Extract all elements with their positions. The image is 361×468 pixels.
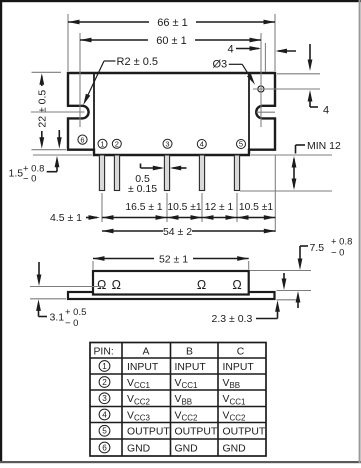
page border frame xyxy=(0,0,361,2)
svg-text:60 ± 1: 60 ± 1 xyxy=(156,35,187,47)
svg-text:1.5: 1.5 xyxy=(9,168,24,180)
svg-text:6: 6 xyxy=(80,135,84,144)
extension tick right side view xyxy=(248,261,250,270)
svg-text:10.5 ±1: 10.5 ±1 xyxy=(167,202,202,213)
table row pin 3 number xyxy=(99,393,110,404)
label MIN 12 leader xyxy=(296,144,306,146)
dimension 54±2 line xyxy=(102,230,163,232)
svg-text:4: 4 xyxy=(227,44,233,56)
svg-text:7.5: 7.5 xyxy=(310,242,325,254)
extension line flange top right xyxy=(277,73,320,75)
pin number 3 xyxy=(163,139,172,148)
dimension 22±0.5 line xyxy=(41,76,43,86)
side ref line flange top right xyxy=(277,290,312,292)
extension line right flange edge xyxy=(274,14,276,71)
dim 7.5 up arrow xyxy=(297,296,299,309)
side ref line body top right xyxy=(250,270,311,272)
svg-text:± 0.15: ± 0.15 xyxy=(128,183,157,195)
table row pin 5 number xyxy=(99,425,110,436)
side ref line flange bottom left xyxy=(30,298,66,300)
svg-text:22 ± 0.5: 22 ± 0.5 xyxy=(37,90,49,128)
svg-text:4.5 ± 1: 4.5 ± 1 xyxy=(50,212,82,224)
dimension 0.5 left arrow xyxy=(140,164,142,169)
svg-text:+ 0.8: + 0.8 xyxy=(331,237,352,248)
svg-text:PIN:: PIN: xyxy=(94,347,114,358)
dim 7.5 mid down arrow xyxy=(283,273,285,285)
dimension 4 (right) down arrow xyxy=(309,44,311,66)
slot centerline left xyxy=(31,111,85,113)
chained dimension line 12 xyxy=(202,217,237,219)
extension line left flange edge xyxy=(67,14,69,71)
dim 4.5±1 arrow xyxy=(86,217,97,219)
svg-text:12 ± 1: 12 ± 1 xyxy=(205,202,234,213)
dimension 60±1 line xyxy=(80,39,148,41)
pin function table grid xyxy=(90,343,266,457)
svg-text:Ω: Ω xyxy=(197,278,206,292)
table row pin 6 number xyxy=(99,442,110,453)
svg-text:3: 3 xyxy=(165,140,169,149)
dim 3.1 bracket xyxy=(39,316,48,318)
dimension 1.5 up arrow xyxy=(47,171,57,173)
hole callout Ø3 leader xyxy=(229,63,242,65)
svg-text:− 0: − 0 xyxy=(23,174,36,185)
svg-text:Ø3: Ø3 xyxy=(213,59,228,71)
svg-text:3.1: 3.1 xyxy=(50,312,65,324)
dim 7.5 bracket xyxy=(300,245,308,247)
extension line lead x=102 xyxy=(101,193,103,222)
extension line right flange edge lower xyxy=(274,155,276,232)
dimension 52±1 line xyxy=(93,258,154,260)
svg-text:4: 4 xyxy=(102,411,107,420)
module package outline (front view) with mounting slots xyxy=(68,73,275,155)
dim 3.1 down arrow xyxy=(38,262,40,282)
side view flange plate xyxy=(68,292,275,299)
svg-text:5: 5 xyxy=(102,427,107,436)
extension line lead x=237 xyxy=(236,193,238,222)
extension line short right of hole xyxy=(264,43,266,72)
svg-text:+ 0.5: + 0.5 xyxy=(65,307,86,318)
svg-text:OUTPUT: OUTPUT xyxy=(175,427,218,438)
svg-text:5: 5 xyxy=(239,140,243,149)
svg-text:R2 ± 0.5: R2 ± 0.5 xyxy=(117,56,159,68)
svg-text:Ω: Ω xyxy=(112,278,121,292)
extension line hole center y xyxy=(253,88,320,90)
extension line body bottom left ext xyxy=(33,154,92,156)
mounting hole D3 on right flange xyxy=(258,86,264,92)
lead tip line xyxy=(240,190,332,192)
dimension MIN12 double arrow xyxy=(293,159,295,187)
flange/body boundary line left xyxy=(93,74,95,155)
dimension 4 (right) bracket xyxy=(310,106,318,108)
svg-text:4: 4 xyxy=(323,105,329,117)
svg-text:B: B xyxy=(186,347,193,358)
svg-text:GND: GND xyxy=(127,443,150,454)
svg-text:3: 3 xyxy=(102,394,107,403)
svg-text:10.5 ±1: 10.5 ±1 xyxy=(239,202,274,213)
extension line lead x=202 xyxy=(201,193,203,222)
svg-text:Ω: Ω xyxy=(97,278,106,292)
extension line left slot center x xyxy=(79,33,81,127)
slot centerline right xyxy=(257,111,276,113)
dimension 0.5 right arrow xyxy=(173,167,187,169)
table row pin 4 number xyxy=(99,409,110,420)
side ref line flange bottom right xyxy=(277,299,298,301)
svg-text:− 0: − 0 xyxy=(331,248,344,259)
radius callout R2±0.5 leader xyxy=(104,60,116,62)
svg-text:GND: GND xyxy=(175,443,198,454)
pin number 6 xyxy=(78,135,87,144)
chained dimension line 16.5 xyxy=(102,217,167,219)
extension line body bottom right xyxy=(251,154,332,156)
svg-text:GND: GND xyxy=(223,443,246,454)
pin number 5 xyxy=(237,140,246,149)
pin number 2 xyxy=(112,139,121,148)
table row pin 2 number xyxy=(99,377,110,388)
side view module body xyxy=(93,271,249,295)
extension line package top left xyxy=(32,71,62,73)
svg-text:54 ± 2: 54 ± 2 xyxy=(163,226,192,238)
svg-text:INPUT: INPUT xyxy=(127,362,159,373)
svg-text:2.3 ± 0.3: 2.3 ± 0.3 xyxy=(212,313,253,325)
side ref line flange top left xyxy=(30,286,105,288)
dimension 4 (top) right arrow xyxy=(278,50,296,52)
svg-text:4: 4 xyxy=(200,140,204,149)
chained dimension line 10.5a xyxy=(167,217,202,219)
dimension 1.5 down arrow xyxy=(58,130,60,144)
svg-text:16.5 ± 1: 16.5 ± 1 xyxy=(125,202,162,213)
svg-text:2: 2 xyxy=(115,140,119,149)
dim 3.1 up arrow xyxy=(38,304,40,317)
dimension 4 (top) left arrow xyxy=(236,48,259,50)
dimension 4 (right) up arrow xyxy=(309,94,311,107)
svg-text:2: 2 xyxy=(102,378,107,387)
svg-text:A: A xyxy=(143,347,150,358)
svg-text:66 ± 1: 66 ± 1 xyxy=(157,17,188,29)
svg-text:6: 6 xyxy=(102,444,107,453)
chained dimension line 10.5b xyxy=(237,217,275,219)
dimension 66±1 line xyxy=(68,21,149,23)
svg-text:MIN 12: MIN 12 xyxy=(307,140,341,152)
extension tick left side view xyxy=(92,261,94,270)
svg-text:OUTPUT: OUTPUT xyxy=(127,427,170,438)
extension line flange bottom left ext xyxy=(32,149,67,151)
extension line hole center x xyxy=(260,33,262,127)
pin number 4 xyxy=(197,140,206,149)
dim 7.5 down arrow xyxy=(298,259,303,271)
pin number 1 xyxy=(98,139,107,148)
svg-text:Ω: Ω xyxy=(232,278,241,292)
svg-text:INPUT: INPUT xyxy=(223,362,255,373)
five pin leads below body xyxy=(99,155,104,191)
svg-text:1: 1 xyxy=(100,140,104,149)
flange/body boundary line right xyxy=(248,74,250,155)
table row pin 1 number xyxy=(99,361,110,372)
svg-text:OUTPUT: OUTPUT xyxy=(223,427,266,438)
svg-text:1: 1 xyxy=(102,362,107,371)
svg-text:− 0: − 0 xyxy=(65,318,78,329)
svg-text:52 ± 1: 52 ± 1 xyxy=(159,254,188,266)
svg-text:C: C xyxy=(237,347,245,358)
extension line lead x=167 xyxy=(166,193,168,222)
dim 2.3 leader xyxy=(256,318,278,320)
svg-text:INPUT: INPUT xyxy=(175,362,207,373)
